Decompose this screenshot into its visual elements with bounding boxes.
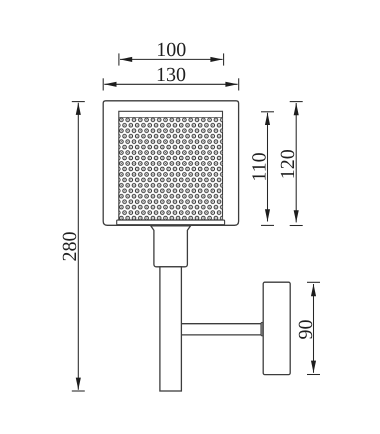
svg-text:110: 110 (248, 152, 270, 181)
svg-text:280: 280 (59, 232, 81, 262)
svg-text:100: 100 (156, 39, 186, 61)
svg-text:120: 120 (277, 149, 299, 179)
svg-text:130: 130 (156, 64, 186, 86)
svg-text:90: 90 (295, 320, 317, 340)
